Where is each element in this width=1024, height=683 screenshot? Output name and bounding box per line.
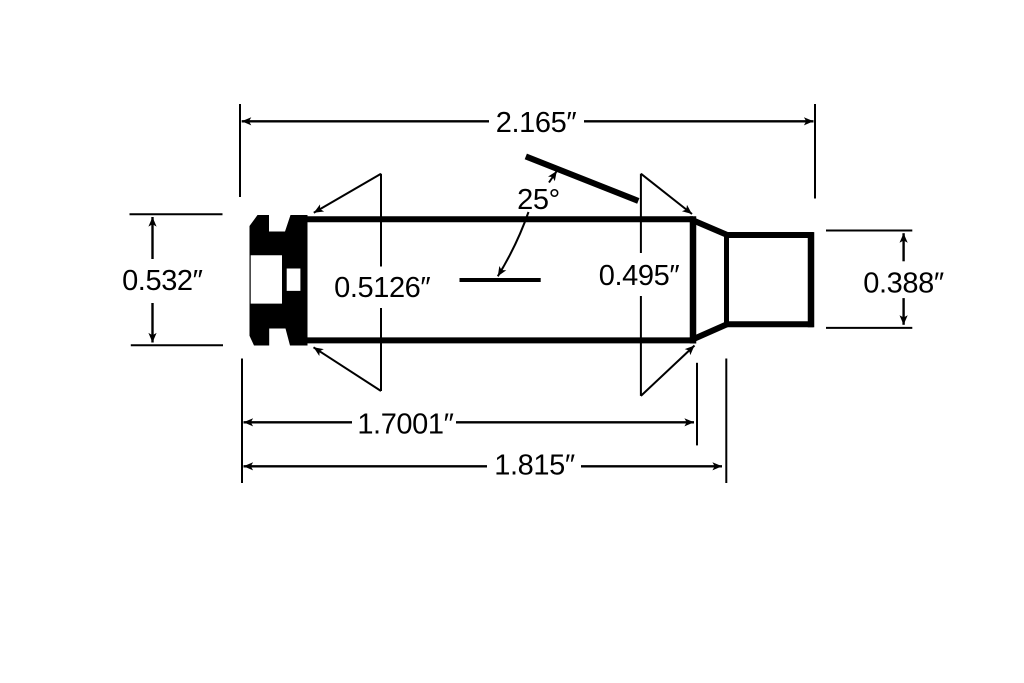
svg-text:0.532″: 0.532″ [122, 265, 203, 297]
svg-text:1.7001″: 1.7001″ [357, 409, 453, 441]
svg-text:0.5126″: 0.5126″ [334, 272, 430, 304]
svg-text:2.165″: 2.165″ [496, 107, 577, 139]
svg-text:1.815″: 1.815″ [494, 449, 575, 481]
svg-text:0.495″: 0.495″ [599, 260, 680, 292]
svg-text:0.388″: 0.388″ [863, 267, 944, 299]
svg-text:25°: 25° [517, 184, 560, 216]
